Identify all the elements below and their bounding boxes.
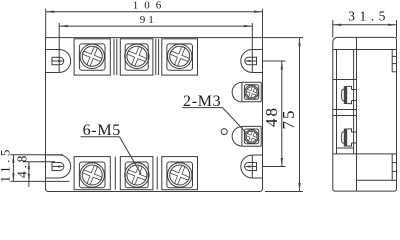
svg-text:48: 48 (262, 106, 281, 127)
svg-text:4.8: 4.8 (14, 153, 29, 178)
svg-text:31.5: 31.5 (348, 9, 390, 24)
svg-text:11.5: 11.5 (0, 146, 12, 182)
svg-text:106: 106 (133, 0, 168, 11)
svg-text:75: 75 (279, 109, 298, 130)
svg-text:91: 91 (140, 14, 157, 26)
